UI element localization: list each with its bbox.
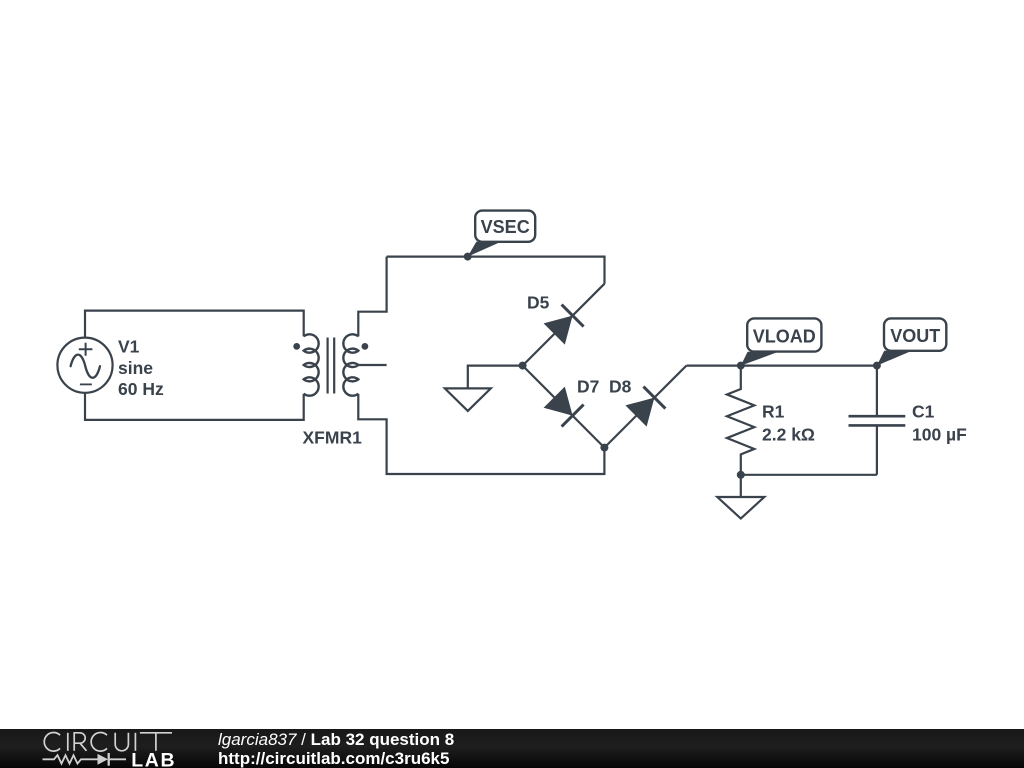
svg-text:VLOAD: VLOAD [753, 327, 816, 347]
svg-text:C1: C1 [912, 402, 935, 422]
transformer center tap stub [358, 364, 386, 366]
svg-text:100 µF: 100 µF [912, 424, 967, 444]
svg-text:VOUT: VOUT [890, 326, 940, 346]
node VSEC junction [464, 253, 472, 261]
polarity dot primary [293, 343, 300, 350]
polarity dot secondary [362, 343, 369, 350]
voltage source V1 [57, 338, 112, 393]
wire secondary top to VSEC rail [358, 257, 386, 337]
svg-text:D7: D7 [577, 377, 599, 397]
wire load bottom rail [741, 474, 877, 476]
capacitor C1 [849, 366, 906, 475]
net flag VSEC [468, 211, 536, 257]
resistor R1 [727, 366, 754, 475]
CircuitLab logo squiggle [43, 753, 127, 766]
transformer core [328, 338, 335, 394]
bottom black bar [0, 729, 1024, 768]
svg-text:LAB: LAB [131, 750, 176, 768]
wire ground lead load [740, 475, 742, 497]
node VOUT junction [873, 362, 881, 370]
wire VSEC top rail [387, 257, 605, 284]
transformer XFMR1 secondary winding [343, 334, 358, 395]
diode D5 [523, 284, 605, 366]
svg-text:sine: sine [118, 358, 153, 378]
footer title [218, 730, 454, 749]
svg-text:VSEC: VSEC [481, 217, 530, 237]
svg-text:D8: D8 [609, 377, 632, 397]
wire secondary bottom to bottom rail [358, 394, 604, 474]
ground center [445, 388, 491, 411]
svg-text:2.2 kΩ: 2.2 kΩ [762, 424, 815, 444]
wire load rail [686, 365, 877, 367]
svg-text:V1: V1 [118, 337, 140, 357]
svg-text:XFMR1: XFMR1 [303, 428, 363, 448]
diode D8 [604, 366, 686, 448]
diode D7 [523, 366, 605, 448]
node VLOAD junction [737, 362, 745, 370]
ground load [717, 497, 764, 519]
svg-text:R1: R1 [762, 402, 785, 422]
wire bottom-left rail [85, 393, 304, 420]
wire top-left rail [85, 311, 304, 338]
node R1 bottom junction [737, 471, 745, 479]
net flag VOUT [877, 318, 946, 365]
wire ground stub at rectifier center [468, 366, 523, 389]
footer url [218, 749, 449, 768]
node A D5 D7 ground junction [519, 362, 527, 370]
transformer XFMR1 primary winding [304, 334, 319, 395]
svg-text:60 Hz: 60 Hz [118, 379, 164, 399]
net flag VLOAD [741, 318, 822, 365]
node B D7 D8 junction [600, 444, 608, 452]
svg-text:lgarcia837 / Lab 32 question 8: lgarcia837 / Lab 32 question 8 [218, 730, 454, 749]
svg-text:http://circuitlab.com/c3ru6k5: http://circuitlab.com/c3ru6k5 [218, 749, 449, 768]
CircuitLab logo LAB [131, 750, 176, 768]
svg-text:D5: D5 [527, 293, 550, 313]
CircuitLab logo CIRCUIT [44, 733, 172, 752]
